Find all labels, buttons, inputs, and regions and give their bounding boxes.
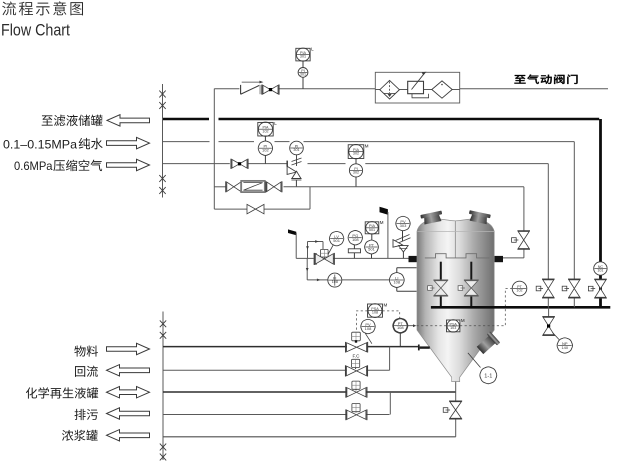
- chem line: [163, 391, 347, 393]
- process line 258: [296, 257, 315, 259]
- leader PV-108: [365, 333, 372, 344]
- svg-text:501: 501: [369, 228, 375, 232]
- globe valve air2: [232, 160, 247, 169]
- compressed air line: [163, 163, 230, 165]
- relief valve 2: [402, 231, 404, 242]
- svg-text:101: 101: [597, 269, 603, 273]
- svg-text:303: 303: [400, 223, 407, 228]
- filter stem 1: [440, 262, 442, 281]
- label 浓浆罐: [62, 430, 73, 441]
- vessel centerline: [454, 221, 456, 258]
- vessel tube sheet: [425, 254, 490, 258]
- nozzle feed-air L: [409, 256, 418, 262]
- wire stack1: [264, 136, 266, 142]
- label 至气动阀门: [514, 75, 525, 84]
- bypass loop: [309, 187, 311, 209]
- strainer valve L: [227, 182, 241, 191]
- regulator: [408, 81, 424, 93]
- svg-text:102: 102: [262, 148, 269, 153]
- svg-text:108: 108: [352, 237, 359, 242]
- instrument PIA-301: [296, 48, 310, 61]
- instrument PI-102: [258, 141, 272, 155]
- right header thick: [599, 119, 602, 306]
- svg-text:1-1: 1-1: [484, 373, 492, 379]
- break A8: [160, 454, 166, 461]
- riser A upper: [162, 84, 164, 198]
- reflux line: [163, 369, 347, 371]
- arrow 排污: [107, 408, 150, 419]
- break A3: [159, 175, 165, 182]
- arrow 化学再生液罐: [107, 387, 150, 398]
- main header: [431, 306, 610, 309]
- instrument PI-302: [349, 164, 362, 177]
- svg-text:301: 301: [300, 55, 306, 59]
- svg-text:501: 501: [368, 246, 375, 251]
- chem valve: [352, 381, 360, 389]
- instrument LI-108: [389, 273, 404, 288]
- cone nozzle L: [418, 345, 420, 351]
- svg-text:302: 302: [353, 152, 359, 156]
- tag 1-1: [480, 367, 497, 384]
- arrow 纯水: [107, 137, 150, 148]
- FE loop: [306, 258, 308, 280]
- svg-text:M: M: [384, 302, 388, 307]
- pure water line: [163, 141, 210, 143]
- LV valve: [321, 249, 329, 257]
- signal dash right: [383, 311, 400, 319]
- relief valve spring: [296, 155, 298, 166]
- air set box: [375, 72, 459, 103]
- instrument PSA-102: [258, 122, 273, 136]
- LI bridle: [396, 268, 398, 273]
- reflux riser: [389, 347, 391, 371]
- filter valve 2: [465, 281, 478, 296]
- process line 187: [214, 186, 226, 188]
- drop to vessel air: [523, 187, 525, 232]
- svg-text:108: 108: [372, 311, 378, 315]
- label 化学再生液罐: [26, 387, 37, 398]
- flag 1: [288, 229, 296, 235]
- instrument PIA-501: [365, 222, 379, 234]
- tag PG-108: [348, 231, 362, 245]
- filter: [380, 80, 400, 99]
- arrow 至滤液储罐: [107, 115, 150, 126]
- break A6: [160, 332, 166, 339]
- bypass valve: [247, 204, 264, 213]
- svg-text:301: 301: [300, 73, 306, 77]
- riser B upper: [213, 89, 215, 210]
- break A5: [160, 320, 166, 327]
- filtrate line thick: [163, 118, 209, 121]
- vent valve 2: [573, 297, 575, 307]
- blowdown line: [163, 414, 347, 416]
- svg-text:0.6MPa: 0.6MPa: [14, 159, 53, 173]
- valve vessel air: [518, 232, 529, 249]
- svg-text:301: 301: [293, 148, 299, 152]
- drain riser: [389, 392, 391, 415]
- svg-text:Flow Chart: Flow Chart: [1, 20, 70, 39]
- relief valve 1: [287, 166, 296, 174]
- svg-text:108: 108: [393, 279, 400, 284]
- arrow 物料: [107, 343, 150, 354]
- tag PT-501: [365, 240, 379, 254]
- feed line: [163, 346, 347, 348]
- arrow 压缩空气: [107, 159, 150, 170]
- filter valve 1: [434, 281, 447, 296]
- svg-text:0.1–0.15MPa: 0.1–0.15MPa: [3, 137, 77, 151]
- break A7: [160, 444, 166, 451]
- riser vent 2: [573, 142, 575, 280]
- signal dash left: [357, 311, 368, 333]
- strainer valve R: [267, 182, 281, 191]
- instrument PI-301: [298, 68, 308, 78]
- flag 2: [380, 207, 388, 215]
- vent valve 1: [547, 297, 549, 307]
- tag NP: [557, 338, 572, 353]
- break A2: [159, 102, 165, 109]
- svg-text:M: M: [365, 143, 369, 148]
- label 排污: [75, 409, 86, 420]
- air line: [214, 88, 239, 90]
- svg-text:302: 302: [353, 171, 359, 175]
- svg-text:102: 102: [262, 129, 268, 133]
- break A4: [159, 187, 165, 194]
- instrument FE: [328, 273, 342, 287]
- leader LV: [328, 245, 333, 255]
- signal loop LV: [307, 242, 309, 259]
- tag PV-108: [361, 319, 375, 333]
- svg-text:501: 501: [333, 238, 340, 243]
- tag PT-108: [393, 319, 407, 333]
- arrow 浓浆罐: [107, 430, 150, 441]
- FC valve: [352, 332, 361, 341]
- leader NP: [553, 333, 560, 340]
- dash PT-102 link: [417, 325, 447, 327]
- title 流程示意图: [2, 1, 16, 15]
- orifice PG: [353, 245, 355, 249]
- riser vent 1: [547, 164, 549, 280]
- drain branch: [548, 307, 550, 317]
- tag LV-501: [329, 231, 343, 245]
- wire PT-108: [399, 333, 401, 347]
- cone nozzle R: [475, 331, 500, 356]
- nozzle feed-air R: [494, 256, 503, 262]
- instrument PSA-108: [368, 304, 383, 317]
- instrument PT-102: [512, 281, 527, 296]
- air set line: [375, 89, 459, 91]
- svg-text:M: M: [461, 318, 465, 323]
- arrow 回流: [107, 365, 150, 376]
- drain valve: [543, 317, 554, 334]
- wire PT-501: [371, 234, 373, 240]
- outlet valve: [450, 402, 462, 419]
- filter stem 2: [470, 262, 472, 281]
- label 至滤液储罐: [42, 115, 53, 125]
- air branch flange: [286, 161, 288, 167]
- svg-text:102: 102: [516, 289, 522, 293]
- svg-text:140: 140: [561, 345, 568, 350]
- svg-text:F.C: F.C: [353, 353, 361, 358]
- reflux valve: [352, 359, 360, 367]
- instrument PI-301b: [290, 141, 304, 155]
- svg-text:M: M: [380, 220, 384, 225]
- tag PV-303: [396, 216, 410, 230]
- riser A lower: [162, 312, 164, 461]
- svg-text:108: 108: [397, 325, 404, 330]
- label 回流: [75, 366, 85, 377]
- vessel top nozzle L: [420, 211, 443, 225]
- vent valve 3: [595, 280, 606, 297]
- strainer body: [241, 181, 265, 192]
- globe valve air: [263, 85, 278, 94]
- check valve: [241, 85, 260, 94]
- wire stack2: [355, 159, 357, 164]
- svg-text:103: 103: [450, 326, 456, 330]
- label 物料: [74, 345, 85, 356]
- break A1: [159, 91, 165, 98]
- instrument NC: [594, 262, 607, 275]
- vessel top nozzle R: [468, 210, 491, 224]
- blowdown valve: [352, 404, 360, 412]
- instrument PIA-302: [348, 145, 364, 159]
- cone outlet: [455, 382, 457, 437]
- slurry line: [163, 436, 456, 438]
- wire PIA-301 stem: [302, 61, 304, 68]
- svg-text:108: 108: [365, 326, 372, 331]
- lubricator: [432, 81, 452, 98]
- instrument PSL: [447, 320, 460, 332]
